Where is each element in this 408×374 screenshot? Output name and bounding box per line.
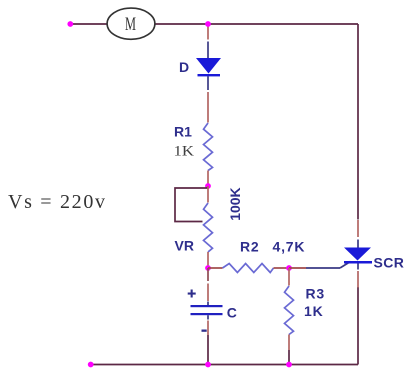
wire SCR anode lead bbox=[357, 220, 359, 237]
wire top rail left segment bbox=[70, 23, 107, 25]
label plus polarity bbox=[188, 290, 196, 298]
label minus polarity bbox=[202, 330, 207, 332]
svg-text:SCR: SCR bbox=[374, 255, 405, 271]
wire node B to capacitor upper segment bbox=[207, 268, 209, 281]
svg-text:D: D bbox=[179, 59, 189, 75]
node top junction dot bbox=[205, 21, 211, 27]
svg-text:4,7K: 4,7K bbox=[273, 238, 306, 254]
diode D bbox=[196, 42, 221, 91]
wire gate lead navy segment bbox=[306, 267, 340, 269]
wire VR to node B bbox=[207, 252, 209, 268]
wire R3 to bottom rail bbox=[288, 350, 290, 365]
wire capacitor bottom lead salmon bbox=[207, 321, 209, 336]
wire diode anode lead bbox=[207, 26, 209, 40]
node bottom right junction dot bbox=[286, 362, 292, 368]
node top-left endpoint dot bbox=[67, 21, 73, 27]
wire R1 to node A bbox=[207, 171, 209, 187]
node bottom-left endpoint dot bbox=[88, 362, 94, 368]
resistor R2 bbox=[223, 264, 274, 273]
wire R3 top lead bbox=[288, 268, 290, 286]
node C junction dot bbox=[286, 265, 292, 271]
svg-text:1K: 1K bbox=[174, 143, 195, 159]
wire R3 bottom lead salmon bbox=[288, 335, 290, 351]
wire node A to VR bbox=[207, 186, 209, 203]
wire gate diagonal into SCR bbox=[340, 262, 351, 269]
svg-text:100K: 100K bbox=[227, 187, 243, 220]
wire R2 to node C bbox=[274, 267, 290, 269]
node A junction dot bbox=[205, 183, 211, 189]
resistor R3 bbox=[285, 286, 294, 335]
wire SCR cathode lead bbox=[357, 271, 359, 288]
wire VR wiper feedback box bbox=[175, 188, 208, 222]
svg-text:VR: VR bbox=[175, 238, 194, 254]
svg-text:1K: 1K bbox=[304, 303, 324, 319]
svg-text:C: C bbox=[227, 305, 237, 321]
wire capacitor to bottom rail bbox=[207, 335, 209, 365]
potentiometer VR resistor body bbox=[204, 203, 213, 252]
wire node B to R2 bbox=[208, 267, 223, 269]
thyristor SCR bbox=[344, 240, 372, 270]
svg-text:M: M bbox=[125, 14, 136, 35]
motor M1 bbox=[107, 8, 155, 39]
node B junction dot bbox=[205, 265, 211, 271]
svg-text:R2: R2 bbox=[240, 238, 260, 254]
wire top rail right segment bbox=[155, 23, 358, 25]
wire diode to R1 bbox=[207, 92, 209, 123]
wire right rail lower bbox=[357, 287, 359, 365]
resistor R1 bbox=[204, 123, 213, 171]
svg-text:R1: R1 bbox=[174, 124, 192, 140]
capacitor C bbox=[191, 302, 223, 320]
wire node B to capacitor lower segment bbox=[207, 284, 209, 302]
svg-text:R3: R3 bbox=[306, 286, 326, 302]
wire right rail upper bbox=[357, 24, 359, 220]
wire gate lead salmon segment bbox=[289, 267, 306, 269]
node bottom middle junction dot bbox=[205, 362, 211, 368]
wire bottom rail bbox=[91, 364, 358, 366]
